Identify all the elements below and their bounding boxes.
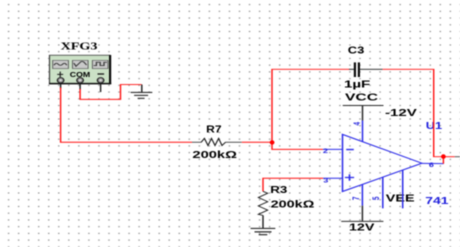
XFG3 square button (92, 60, 108, 68)
svg-text:R7: R7 (206, 123, 221, 135)
wire output node up and to right edge (443, 157, 460, 164)
resistor R3 (vertical) (258, 191, 267, 215)
op-amp U1 triangle (343, 134, 422, 191)
wire R7 to node A (242, 141, 272, 143)
wire C3 right to feedback corner and down to output node (383, 69, 444, 156)
svg-text:741: 741 (425, 195, 448, 207)
op-amp offset pin 1 lead (402, 170, 404, 208)
wire node A down to op-amp inverting input (272, 142, 323, 149)
pin stub of XFG3 minus terminal (100, 83, 102, 92)
XFG3 triangle button (73, 60, 89, 68)
svg-text:XFG3: XFG3 (61, 40, 98, 52)
pin stub of XFG3 plus terminal (60, 83, 62, 89)
svg-text:C3: C3 (348, 44, 365, 56)
svg-text:6: 6 (429, 162, 434, 169)
wire node A up to C3 (feedback branch left) (272, 69, 350, 142)
output node junction dot (441, 154, 446, 158)
op-amp VEE pin 7 lead (361, 184, 363, 205)
svg-text:5: 5 (371, 196, 382, 200)
svg-text:2: 2 (323, 148, 329, 155)
XFG3 minus terminal (97, 78, 104, 83)
pin stub of XFG3 COM terminal (79, 83, 81, 90)
XFG3 minus terminal label (98, 73, 105, 75)
ground G2 (251, 228, 276, 234)
op-amp inverting input pin 2 lead (323, 148, 343, 150)
function generator XFG3 body (49, 55, 111, 84)
svg-text:12V: 12V (349, 221, 375, 233)
svg-text:1µF: 1µF (344, 78, 370, 90)
VCC power symbol (T bar) (343, 106, 384, 121)
node A junction dot (270, 140, 275, 144)
svg-text:200kΩ: 200kΩ (271, 198, 315, 210)
op-amp offset pin 5 lead (382, 177, 384, 208)
svg-text:200kΩ: 200kΩ (192, 148, 237, 160)
resistor R7 (192, 138, 242, 145)
wire op-amp non-inverting input to R3 (263, 178, 323, 191)
XFG3 plus terminal label (57, 72, 63, 78)
ground G1 (131, 85, 153, 99)
wire R3 to ground G2 (262, 215, 264, 228)
op-amp non-inverting input pin 3 lead (323, 177, 342, 179)
XFG3 plus terminal (57, 78, 64, 83)
wire pin 7 to VEE symbol (361, 206, 363, 222)
VEE power symbol (T bar) (341, 220, 383, 222)
plus sign inside op-amp (345, 174, 354, 180)
minus sign inside op-amp (346, 148, 354, 150)
op-amp VCC pin 4 lead (362, 120, 364, 141)
svg-text:4: 4 (352, 122, 363, 126)
svg-text:VCC: VCC (345, 91, 379, 103)
XFG3 sine button (53, 60, 69, 68)
svg-text:R3: R3 (270, 184, 287, 196)
XFG3 COM terminal (77, 78, 84, 83)
capacitor C3 (349, 62, 383, 77)
svg-text:-12V: -12V (385, 107, 417, 119)
svg-text:7: 7 (351, 196, 362, 200)
svg-text:VEE: VEE (386, 192, 415, 204)
op-amp output pin 6 lead (422, 162, 444, 164)
svg-text:3: 3 (323, 177, 329, 184)
wire XFG3 plus to R7 (down then right) (61, 87, 192, 142)
wire XFG3 COM to ground G1 (80, 85, 142, 100)
